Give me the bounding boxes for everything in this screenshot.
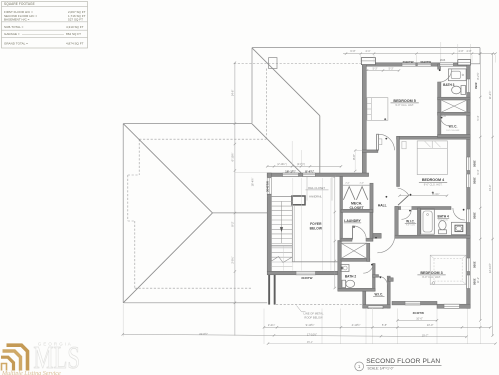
- svg-text:3040TW: 3040TW: [420, 60, 431, 64]
- bath4 south wall / bedroom3 north wall: [395, 235, 470, 238]
- svg-text:MLS: MLS: [33, 340, 80, 374]
- bedroom3 west wall stub: [388, 278, 393, 282]
- window label west wall rotated: [266, 181, 270, 192]
- laundry east wall: [370, 212, 373, 241]
- bath2 east wall: [373, 264, 376, 292]
- bath4 vestibule west wall: [395, 207, 398, 239]
- outlet marker bedroom5: [384, 118, 386, 120]
- stair landing line: [271, 245, 293, 247]
- wic bedroom4 west wall: [438, 112, 441, 137]
- window wic bedroom3 south wall: [368, 306, 383, 309]
- laundry south wall right: [366, 238, 373, 241]
- bedroom3 text: [420, 271, 442, 275]
- bottom dimension rows: [122, 304, 497, 345]
- svg-text:W.I.C.: W.I.C.: [406, 219, 415, 223]
- svg-text:3040TW: 3040TW: [413, 311, 425, 315]
- wic bedroom4 text: [449, 125, 458, 129]
- svg-text:BATH 4: BATH 4: [438, 214, 450, 218]
- svg-text:BATH 3: BATH 3: [443, 83, 455, 87]
- svg-text:BEDROOM 5: BEDROOM 5: [393, 99, 415, 103]
- foyer below text: [310, 222, 322, 226]
- bath4 text: [438, 214, 450, 218]
- bath2 toilet: [342, 280, 355, 287]
- window labels north wall: [403, 60, 414, 64]
- bedroom3 tray ceiling dashed: [430, 255, 466, 284]
- linen closet bottom wall: [438, 112, 471, 115]
- svg-text:FOYER: FOYER: [310, 222, 322, 226]
- svg-text:3050: 3050: [472, 278, 476, 285]
- svg-text:4,310 SQ FT: 4,310 SQ FT: [66, 25, 84, 29]
- svg-text:1,716 SQ FT: 1,716 SQ FT: [68, 14, 86, 18]
- bedroom5 bed: [367, 98, 388, 121]
- interior dimension bedroom4: [398, 192, 448, 197]
- wic bedroom3 west wall: [363, 291, 366, 308]
- mech closet header line: [341, 184, 370, 186]
- dashed line of metal roof below: [276, 303, 363, 305]
- window north wall bath3: [440, 63, 454, 66]
- svg-text:5'-3": 5'-3": [389, 68, 394, 71]
- svg-text:527 SQ FT: 527 SQ FT: [68, 18, 83, 22]
- wic bedroom3 east wall: [387, 276, 390, 308]
- svg-text:GRAND TOTAL =: GRAND TOTAL =: [4, 41, 28, 45]
- svg-text:8'-4¾": 8'-4¾": [305, 170, 315, 174]
- foyer bottom rail line: [292, 261, 341, 263]
- svg-text:2,067 SQ FT: 2,067 SQ FT: [68, 10, 86, 14]
- top dimension line: [343, 49, 497, 62]
- svg-text:2'-0": 2'-0": [345, 183, 350, 185]
- svg-text:SECOND FLOOR PLAN: SECOND FLOOR PLAN: [366, 358, 440, 365]
- west exterior wall upper: [362, 63, 366, 174]
- window north wall pair: [402, 63, 416, 66]
- dashed chimney square: [269, 58, 277, 69]
- bath3 closet divider wall: [438, 97, 471, 100]
- bath3 west wall upper stub: [438, 64, 441, 69]
- svg-text:2040: 2040: [441, 116, 447, 118]
- window west wall with label: [267, 178, 271, 194]
- svg-text:GARAGE =: GARAGE =: [4, 32, 20, 36]
- bath4 tub: [421, 209, 435, 235]
- svg-text:CLOSET: CLOSET: [349, 206, 364, 210]
- window label middle south wall: [301, 276, 313, 280]
- bath3 toilet: [452, 86, 466, 95]
- window box north wall right: [458, 60, 471, 65]
- bath2 south wall: [338, 288, 375, 291]
- svg-text:2846: 2846: [440, 59, 446, 62]
- multiple listing service text: [1, 371, 61, 375]
- ceiling fan marker: [432, 282, 435, 285]
- bath2 west wall: [338, 241, 342, 290]
- bath4 door swing: [453, 208, 465, 220]
- svg-text:LAUNDRY: LAUNDRY: [344, 219, 361, 223]
- svg-text:SUB-TOTAL =: SUB-TOTAL =: [4, 25, 24, 29]
- linen closet with X near bath3: [441, 100, 468, 113]
- windows east wall bedroom4: [467, 157, 471, 171]
- hall text: [378, 204, 387, 208]
- svg-text:BEDROOM 4: BEDROOM 4: [422, 178, 445, 182]
- svg-text:5'-3": 5'-3": [373, 68, 378, 71]
- wic bedroom4 door swing: [440, 116, 450, 126]
- stair break line: [271, 257, 293, 263]
- bath3 text: [443, 83, 455, 87]
- window north wall left: [361, 58, 375, 65]
- dim label rotated inside foyer: [352, 149, 362, 172]
- window south wall bedroom3: [405, 301, 421, 305]
- wic bath4 door opening and swing: [401, 206, 412, 219]
- bath3 door swing: [438, 69, 451, 82]
- bath2 text: [345, 275, 357, 279]
- rail closet text: [308, 186, 325, 190]
- window label south bedroom3: [413, 311, 425, 315]
- svg-text:45'-1": 45'-1": [307, 341, 313, 344]
- svg-text:3040TW: 3040TW: [403, 60, 414, 64]
- svg-text:SQUARE FOOTAGE: SQUARE FOOTAGE: [4, 2, 35, 6]
- middle dimension row above wall: [266, 141, 342, 174]
- hall to bedroom3 door swing: [377, 238, 394, 252]
- svg-text:BEDROOM 3: BEDROOM 3: [420, 271, 442, 275]
- east exterior wall: [467, 63, 471, 308]
- svg-text:864 SQ FT: 864 SQ FT: [66, 32, 81, 36]
- roof valley diagonal middle: [252, 124, 302, 174]
- bedroom4 bed: [417, 141, 447, 175]
- georgia text: [38, 341, 71, 346]
- bedroom3 south wall left: [392, 301, 437, 305]
- svg-text:4,874 SQ FT: 4,874 SQ FT: [66, 41, 84, 45]
- middle north wall: [267, 173, 368, 177]
- bath2 sink: [341, 265, 349, 272]
- rail closet sides: [306, 177, 308, 201]
- linen closet east wall: [367, 243, 370, 261]
- svg-text:FIRST FLOOR H/C =: FIRST FLOOR H/C =: [4, 10, 33, 14]
- svg-text:BELOW: BELOW: [310, 226, 323, 230]
- stair center line with arrow: [281, 202, 283, 244]
- bedroom4 west wall: [397, 136, 400, 186]
- dashed eave line left roof: [128, 139, 266, 288]
- bath3 sink vanity: [448, 69, 466, 81]
- mls outline text: [33, 340, 80, 374]
- stair side rail: [291, 205, 293, 262]
- dim label rotated outside west wall: [251, 178, 255, 187]
- laundry text: [344, 219, 361, 223]
- svg-text:HALL: HALL: [378, 204, 387, 208]
- title second floor plan: [366, 358, 440, 365]
- bath4 vanity: [451, 222, 466, 234]
- stair top wall line: [267, 195, 302, 197]
- linen closet south wall: [341, 258, 370, 261]
- bedroom4 door swing: [398, 188, 409, 205]
- svg-text:2850: 2850: [472, 177, 476, 184]
- foyer dimension extension lines: [284, 178, 331, 271]
- closet column dimension line: [334, 175, 336, 289]
- svg-text:BASEMENT H/C =: BASEMENT H/C =: [4, 18, 30, 22]
- bath2 door swing: [363, 263, 373, 273]
- svg-text:SECOND FLOOR H/C =: SECOND FLOOR H/C =: [4, 14, 37, 18]
- window east wall bath3: [467, 79, 471, 93]
- window east wall bath4: [467, 209, 471, 223]
- bedroom4 text: [422, 178, 445, 182]
- bifold doors mech closet: [343, 187, 367, 200]
- svg-text:3040TW: 3040TW: [266, 181, 270, 192]
- laundry door swing: [353, 226, 367, 240]
- svg-text:MECH.: MECH.: [351, 202, 362, 206]
- svg-text:9'-0" CLG. HGT.: 9'-0" CLG. HGT.: [446, 130, 460, 132]
- south wall middle section: [267, 271, 341, 275]
- svg-text:3046TW: 3046TW: [301, 276, 313, 280]
- hall south wall corner piece: [373, 233, 381, 238]
- bath4 wic divider wall: [417, 208, 420, 237]
- svg-text:3050: 3050: [474, 82, 478, 89]
- wic bedroom4 south wall: [438, 134, 471, 137]
- window middle south wall: [296, 271, 316, 275]
- windows middle north wall: [283, 173, 299, 176]
- mech closet text: [351, 202, 362, 206]
- bedroom5 door leaf and swing: [377, 134, 395, 150]
- interior dimension bedroom5: [366, 68, 400, 72]
- svg-text:2850: 2850: [472, 160, 476, 167]
- dashed wall-below line at top: [234, 63, 362, 65]
- bedroom4 door marker rect: [402, 141, 406, 148]
- bedroom3 south wall right: [437, 304, 470, 308]
- roof outline left section: [123, 124, 267, 303]
- wic door stub wall: [373, 275, 379, 278]
- bedroom5 south wall: [362, 150, 378, 153]
- window labels east wall: [474, 82, 478, 89]
- window south wall bedroom3 right: [444, 304, 460, 308]
- title circle: [355, 362, 364, 371]
- title scale text: [368, 367, 394, 371]
- roof hip diagonals left: [123, 124, 212, 213]
- svg-text:W.I.C.: W.I.C.: [374, 293, 383, 297]
- bath4 toilet: [439, 221, 447, 234]
- outlet marker bedroom4: [432, 192, 434, 194]
- left vertical dimension line: [230, 62, 267, 336]
- extension lines top right: [441, 42, 471, 63]
- wic bath4 text: [406, 219, 415, 223]
- line of metal roof below text: [297, 306, 324, 320]
- windows east wall bedroom3: [467, 258, 471, 272]
- svg-text:2'-0": 2'-0": [360, 183, 365, 185]
- laundry south wall left: [341, 238, 352, 241]
- mech closet header dim texts: [345, 183, 350, 185]
- roof outline upper section: [252, 48, 480, 124]
- wic bedroom3 text: [374, 293, 383, 297]
- svg-text:HANDRAIL: HANDRAIL: [309, 195, 322, 198]
- mech closet south wall: [341, 209, 373, 212]
- svg-text:Multiple Listing Service: Multiple Listing Service: [1, 371, 61, 375]
- right dimension lines: [476, 52, 494, 336]
- north exterior wall: [362, 63, 470, 66]
- svg-text:SCALE: 1/4"=1'-0": SCALE: 1/4"=1'-0": [368, 367, 394, 371]
- bedroom5 text: [393, 99, 415, 103]
- square footage table: [2, 2, 88, 49]
- svg-text:W.I.C.: W.I.C.: [449, 125, 458, 129]
- linen closet with X near laundry: [341, 243, 367, 258]
- svg-text:3050: 3050: [472, 261, 476, 268]
- bath4 wic north wall: [395, 207, 451, 210]
- mech closet east wall: [370, 183, 373, 212]
- svg-text:2850: 2850: [472, 212, 476, 219]
- svg-text:BATH 2: BATH 2: [345, 275, 357, 279]
- stair treads: [271, 201, 293, 266]
- georgia mls logo icon: [1, 345, 28, 370]
- stair chase box: [292, 196, 305, 205]
- wic bedroom3 door swing: [379, 276, 388, 286]
- west exterior wall middle upper stub: [267, 173, 271, 178]
- exterior wall below stairs: [268, 275, 270, 305]
- svg-text:9'-0" CLG.: 9'-0" CLG.: [406, 225, 416, 227]
- west exterior wall middle lower: [267, 194, 271, 271]
- closet column west wall: [340, 177, 343, 242]
- wic bedroom3 south wall: [363, 305, 391, 309]
- bath3 west wall lower: [438, 82, 441, 113]
- roof hip diagonal upper: [252, 48, 320, 116]
- svg-text:16'-1¾": 16'-1¾": [285, 170, 296, 174]
- bedroom4 north wall: [397, 136, 471, 139]
